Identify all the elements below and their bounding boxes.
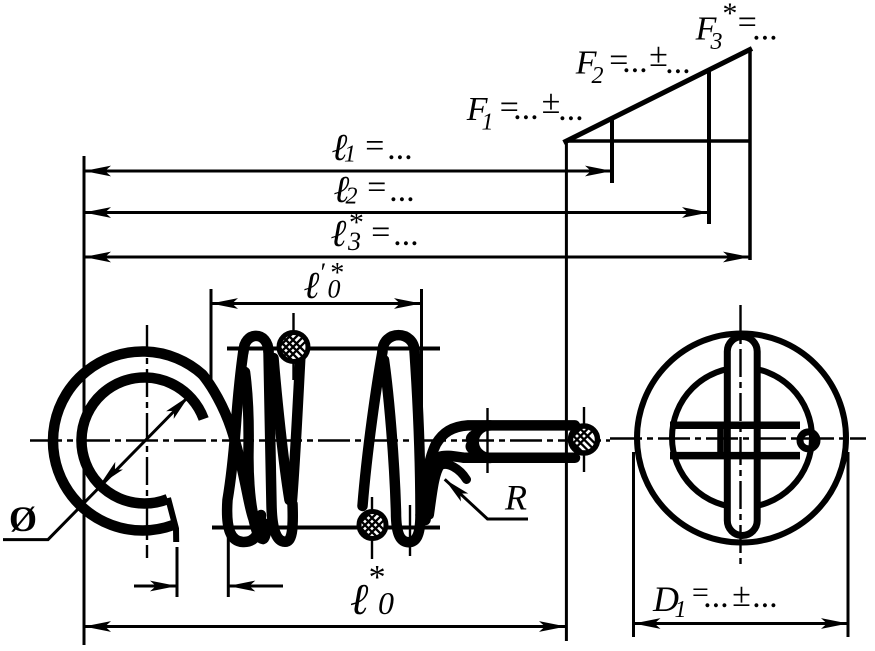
svg-text:2: 2 [592,63,604,89]
svg-text:...: ... [514,90,540,127]
svg-text:...: ... [753,11,779,48]
svg-text:±: ± [649,37,668,74]
svg-text:0: 0 [328,275,341,304]
svg-text:*: * [721,0,736,30]
svg-text:...: ... [753,578,779,615]
svg-text:3: 3 [710,29,723,55]
svg-text:=: = [365,169,388,206]
svg-text:...: ... [390,172,416,209]
svg-text:...: ... [623,43,649,80]
svg-text:*: * [367,559,384,596]
svg-text:...: ... [388,130,414,167]
svg-text:...: ... [666,44,692,81]
svg-text:1: 1 [482,110,494,136]
svg-text:...: ... [394,216,420,253]
svg-text:′: ′ [319,258,325,287]
svg-text:ℓ: ℓ [304,265,320,307]
svg-text:ℓ: ℓ [331,213,347,255]
svg-text:Ø: Ø [9,499,37,539]
svg-text:±: ± [542,84,561,121]
svg-text:1: 1 [675,597,687,623]
svg-text:1: 1 [344,142,356,168]
svg-text:=: = [369,214,392,251]
svg-text:=: = [363,128,386,165]
svg-text:*: * [348,206,363,239]
svg-text:R: R [504,478,527,518]
svg-text:±: ± [732,577,751,614]
svg-text:...: ... [704,578,730,615]
svg-text:...: ... [559,91,585,128]
